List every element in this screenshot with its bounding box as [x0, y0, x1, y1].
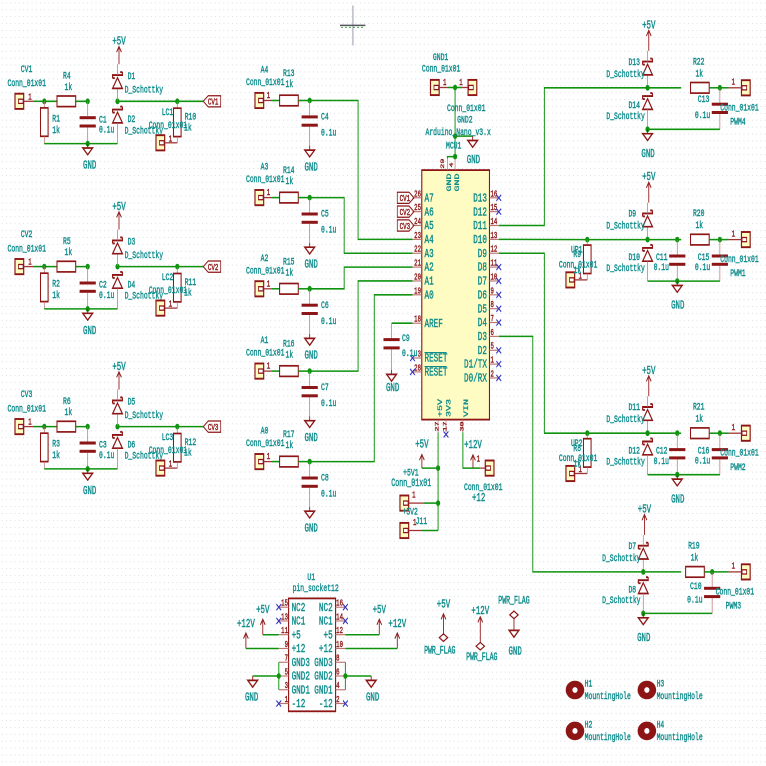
connector CV1 Conn_01x01 — [8, 63, 46, 109]
ground — [671, 281, 684, 312]
diode D1 D_Schottky — [113, 64, 163, 101]
svg-text:GND: GND — [366, 691, 379, 704]
svg-text:C10: C10 — [690, 580, 702, 592]
svg-text:GND: GND — [671, 299, 684, 312]
wire — [648, 280, 720, 282]
wire — [177, 266, 203, 268]
wire — [648, 474, 720, 476]
connector PWM4 Conn_01x01 — [720, 79, 758, 128]
pin 12 D9 — [478, 246, 499, 262]
wire — [44, 100, 87, 102]
svg-text:D7: D7 — [628, 540, 636, 552]
connector +5V2 Conn_01x01 — [400, 492, 424, 519]
svg-text:A2: A2 — [261, 252, 269, 264]
svg-text:0.1u: 0.1u — [695, 455, 710, 467]
svg-text:NC1: NC1 — [319, 615, 333, 629]
svg-text:CV1: CV1 — [208, 97, 219, 108]
svg-text:1: 1 — [169, 461, 173, 471]
pin 17 3V3 — [443, 399, 453, 437]
svg-text:GND: GND — [304, 349, 317, 362]
junction — [42, 424, 46, 430]
svg-text:9: 9 — [285, 641, 289, 651]
wire — [473, 467, 480, 469]
ground — [637, 613, 650, 644]
junction — [645, 126, 649, 132]
wire — [177, 426, 203, 428]
connector CV2 Conn_01x01 — [8, 229, 46, 275]
capacitor C3 0.1u — [80, 427, 115, 469]
svg-text:R19: R19 — [688, 540, 700, 552]
diode D3 D_Schottky — [113, 230, 163, 267]
svg-text:R20: R20 — [693, 208, 705, 220]
svg-text:11: 11 — [281, 627, 288, 637]
diode D11 D_Schottky — [606, 396, 652, 433]
wire — [437, 432, 439, 530]
junction — [175, 98, 179, 104]
svg-text:Conn_01x01: Conn_01x01 — [149, 285, 187, 297]
wire — [720, 87, 729, 89]
global label CV1 — [397, 192, 414, 205]
wire — [310, 295, 413, 462]
svg-text:0.1u: 0.1u — [654, 262, 669, 274]
svg-text:12: 12 — [490, 246, 497, 256]
svg-text:1: 1 — [28, 93, 32, 103]
junction — [710, 569, 714, 575]
svg-text:GND: GND — [671, 493, 684, 506]
svg-text:1: 1 — [732, 424, 736, 434]
svg-text:+5V: +5V — [112, 200, 125, 213]
mounting hole H1 — [566, 678, 631, 703]
svg-text:GND: GND — [83, 484, 96, 497]
junction — [675, 237, 679, 243]
power +5V — [642, 171, 655, 203]
svg-text:A4: A4 — [261, 64, 269, 76]
svg-text:5: 5 — [490, 343, 494, 353]
svg-text:MountingHole: MountingHole — [657, 691, 703, 703]
junction — [86, 141, 90, 147]
pin 13 NC1 — [276, 613, 305, 629]
junction — [86, 466, 90, 472]
svg-text:C5: C5 — [321, 208, 329, 220]
svg-text:H4: H4 — [657, 719, 665, 731]
svg-text:+12: +12 — [472, 491, 485, 504]
svg-text:Conn_01x01: Conn_01x01 — [720, 102, 758, 114]
svg-text:A1: A1 — [424, 275, 433, 289]
pin 2 D0/RX — [464, 370, 501, 386]
svg-text:D_Schottky: D_Schottky — [606, 456, 644, 468]
capacitor C9 0.1u — [383, 323, 417, 370]
svg-text:GND2: GND2 — [457, 114, 472, 126]
svg-text:+12V: +12V — [464, 438, 482, 451]
wire — [643, 571, 681, 573]
pin 6 GND2 — [314, 668, 345, 684]
connector PWM1 Conn_01x01 — [720, 230, 758, 279]
pin 18 AREF — [412, 316, 442, 332]
connector A2 Conn_01x01 — [246, 252, 284, 296]
svg-text:1k: 1k — [64, 407, 72, 419]
svg-text:NC1: NC1 — [292, 615, 306, 629]
svg-text:1k: 1k — [695, 413, 703, 425]
global label CV3 — [397, 220, 414, 233]
svg-text:C9: C9 — [402, 333, 410, 345]
svg-text:CV3: CV3 — [21, 389, 33, 401]
svg-text:1k: 1k — [573, 265, 581, 277]
svg-text:Conn_01x01: Conn_01x01 — [246, 347, 284, 359]
junction — [308, 195, 312, 201]
pin 8 D5 — [478, 301, 501, 317]
wire — [392, 322, 413, 324]
svg-text:Conn_01x01: Conn_01x01 — [422, 63, 460, 75]
pin 3 RESET — [410, 350, 447, 366]
pin 5 GND2 — [279, 668, 310, 684]
svg-text:+5V: +5V — [112, 35, 125, 48]
svg-text:GND: GND — [637, 631, 650, 644]
wire — [677, 432, 681, 434]
resistor R22 1k — [691, 56, 710, 93]
junction — [436, 465, 440, 471]
wire — [709, 432, 720, 434]
svg-text:D_Schottky: D_Schottky — [125, 249, 163, 261]
svg-text:R2: R2 — [52, 278, 60, 290]
svg-text:1: 1 — [732, 79, 736, 89]
svg-text:H3: H3 — [657, 678, 665, 690]
junction — [86, 306, 90, 312]
junction — [718, 237, 722, 243]
svg-text:GND2: GND2 — [292, 670, 310, 684]
wire — [310, 267, 413, 289]
svg-text:H2: H2 — [585, 719, 593, 731]
svg-text:A0: A0 — [261, 425, 269, 437]
capacitor C4 0.1u — [302, 101, 337, 146]
junction — [675, 430, 679, 436]
wire — [463, 432, 473, 468]
junction — [86, 424, 90, 430]
capacitor C7 0.1u — [302, 371, 337, 416]
svg-text:14: 14 — [336, 613, 343, 623]
svg-text:C13: C13 — [698, 94, 710, 106]
svg-text:GND: GND — [304, 161, 317, 174]
svg-text:A2: A2 — [424, 261, 433, 275]
wire — [648, 239, 678, 241]
svg-text:1k: 1k — [64, 247, 72, 259]
power +12V — [237, 617, 255, 648]
svg-text:Conn_01x01: Conn_01x01 — [391, 477, 431, 489]
svg-text:6: 6 — [336, 668, 340, 678]
svg-text:3V3: 3V3 — [446, 399, 453, 417]
svg-text:GND: GND — [508, 645, 521, 658]
svg-text:1: 1 — [169, 135, 173, 145]
svg-text:PWR_FLAG: PWR_FLAG — [498, 595, 529, 607]
svg-text:3: 3 — [418, 350, 422, 360]
junction — [453, 85, 457, 91]
svg-text:7: 7 — [285, 655, 288, 665]
svg-text:Conn_01x01: Conn_01x01 — [8, 403, 46, 415]
junction — [308, 98, 312, 104]
svg-text:4: 4 — [336, 682, 340, 692]
svg-text:12: 12 — [336, 627, 343, 637]
power +5V — [415, 438, 428, 468]
svg-text:GND: GND — [83, 159, 96, 172]
svg-text:NC2: NC2 — [292, 601, 306, 615]
junction — [343, 673, 347, 679]
svg-text:Conn_01x01: Conn_01x01 — [246, 174, 284, 186]
svg-text:0.1u: 0.1u — [695, 110, 710, 122]
resistor R11 1k — [173, 267, 196, 309]
capacitor C11 0.1u — [654, 240, 686, 282]
diode D7 D_Schottky — [602, 535, 648, 572]
power +12V — [388, 617, 406, 648]
capacitor C6 0.1u — [302, 289, 337, 334]
svg-text:H1: H1 — [585, 678, 593, 690]
svg-text:+5V: +5V — [642, 171, 655, 184]
svg-text:D7: D7 — [478, 275, 487, 289]
svg-text:A0: A0 — [424, 289, 433, 303]
power +5V — [642, 19, 655, 51]
svg-text:23: 23 — [414, 232, 421, 242]
wire — [720, 239, 729, 241]
pin 6 D3 — [478, 329, 499, 345]
diode D9 D_Schottky — [606, 203, 652, 240]
svg-text:MCU1: MCU1 — [446, 140, 461, 152]
svg-text:8: 8 — [490, 301, 494, 311]
svg-text:Conn_01x01: Conn_01x01 — [246, 77, 284, 89]
wire — [643, 612, 712, 614]
pin 20 A1 — [412, 273, 433, 289]
power +5V — [112, 360, 125, 389]
svg-text:9: 9 — [490, 287, 494, 297]
wire — [33, 100, 44, 102]
pin 11 +5 — [279, 627, 301, 643]
power +12V PWR_FLAG — [466, 604, 497, 664]
svg-text:0.1u: 0.1u — [321, 127, 336, 139]
pin 15 NC2 — [276, 600, 305, 616]
svg-text:R4: R4 — [63, 70, 71, 82]
ground — [245, 676, 258, 704]
pin 7 GND3 — [279, 655, 310, 671]
svg-text:0.1u: 0.1u — [321, 224, 336, 236]
svg-text:1: 1 — [732, 563, 736, 573]
svg-text:1: 1 — [267, 92, 271, 102]
svg-text:PWR_FLAG: PWR_FLAG — [424, 645, 455, 657]
capacitor C5 0.1u — [302, 198, 337, 243]
svg-text:+12V: +12V — [471, 604, 489, 617]
svg-text:AREF: AREF — [424, 317, 442, 331]
wire — [33, 266, 44, 268]
svg-text:6: 6 — [490, 329, 494, 339]
svg-text:26: 26 — [414, 190, 421, 200]
wire — [587, 432, 647, 434]
svg-text:+12V: +12V — [388, 617, 406, 630]
ground — [304, 334, 317, 362]
diode D12 D_Schottky — [606, 439, 652, 475]
connector A1 Conn_01x01 — [246, 335, 284, 379]
svg-text:PWR_FLAG: PWR_FLAG — [466, 652, 497, 664]
svg-text:10: 10 — [336, 641, 343, 651]
svg-text:Conn_01x01: Conn_01x01 — [716, 586, 754, 598]
svg-text:0.1u: 0.1u — [99, 289, 114, 301]
svg-text:C4: C4 — [321, 111, 329, 123]
svg-text:NC2: NC2 — [319, 601, 333, 615]
ground — [83, 309, 97, 338]
wire — [454, 136, 456, 157]
wire — [709, 239, 720, 241]
svg-text:Conn_01x01: Conn_01x01 — [720, 447, 758, 459]
ground — [386, 370, 399, 395]
power +5V — [373, 604, 386, 635]
svg-text:7: 7 — [490, 315, 493, 325]
svg-text:30: 30 — [460, 421, 466, 431]
resistor R19 1k — [686, 540, 705, 577]
svg-text:+5V: +5V — [437, 399, 444, 417]
wire — [454, 157, 456, 159]
connector UP1 Conn_01x01 — [559, 244, 597, 287]
global label CV2 — [203, 261, 220, 274]
diode D10 D_Schottky — [606, 245, 652, 281]
pin 16 D13 — [473, 190, 501, 206]
pin 15 D12 — [473, 204, 501, 220]
junction — [453, 133, 457, 139]
svg-text:CV2: CV2 — [400, 208, 411, 219]
svg-text:D12: D12 — [473, 206, 487, 220]
svg-text:CV3: CV3 — [400, 222, 411, 233]
svg-text:PWM1: PWM1 — [730, 268, 745, 280]
wire — [448, 87, 462, 89]
pin 3 GND1 — [279, 682, 310, 698]
svg-text:1k: 1k — [285, 267, 293, 279]
svg-text:Conn_01x01: Conn_01x01 — [8, 243, 46, 255]
svg-text:GND: GND — [386, 381, 399, 394]
svg-text:0.1u: 0.1u — [99, 124, 114, 136]
power +5V — [112, 35, 125, 64]
svg-text:-12: -12 — [319, 698, 333, 712]
svg-text:D_Schottky: D_Schottky — [606, 68, 644, 80]
wire — [424, 502, 438, 504]
svg-text:13: 13 — [281, 613, 288, 623]
svg-text:1: 1 — [477, 455, 481, 465]
pin 25 A6 — [412, 204, 433, 220]
capacitor C12 0.1u — [654, 433, 686, 475]
svg-text:GND2: GND2 — [314, 670, 332, 684]
svg-text:1k: 1k — [573, 458, 581, 470]
svg-text:D0/RX: D0/RX — [464, 372, 487, 386]
connector PWM2 Conn_01x01 — [720, 424, 758, 473]
resistor R5 1k — [57, 235, 76, 272]
svg-text:1k: 1k — [695, 68, 703, 80]
pin 24 A5 — [412, 218, 433, 234]
svg-text:RESET: RESET — [424, 366, 447, 380]
wire — [253, 675, 279, 677]
diode D2 D_Schottky — [113, 107, 163, 144]
svg-text:D13: D13 — [628, 56, 640, 68]
svg-text:CV1: CV1 — [21, 63, 33, 75]
wire — [499, 253, 587, 433]
wire — [422, 467, 438, 469]
wire — [44, 468, 117, 470]
svg-text:GND: GND — [641, 147, 654, 160]
svg-text:+5V: +5V — [638, 503, 651, 516]
svg-text:+5V: +5V — [415, 438, 428, 451]
wire — [344, 662, 346, 690]
svg-text:1: 1 — [490, 357, 494, 367]
svg-text:D10: D10 — [473, 233, 487, 247]
wire — [454, 88, 456, 137]
junction — [585, 237, 589, 243]
svg-text:PWM4: PWM4 — [730, 116, 745, 128]
pin 26 A7 — [412, 190, 433, 206]
svg-text:pin_socket12: pin_socket12 — [293, 582, 339, 594]
connector CV3 Conn_01x01 — [8, 389, 46, 435]
junction — [115, 98, 119, 104]
wire — [648, 128, 720, 130]
svg-text:1: 1 — [443, 79, 447, 89]
wire — [720, 432, 729, 434]
svg-text:D9: D9 — [628, 208, 636, 220]
power +5V — [112, 200, 125, 229]
mounting hole H3 — [638, 678, 703, 703]
pin 23 A4 — [412, 232, 433, 248]
ground — [304, 507, 317, 535]
svg-text:1k: 1k — [64, 81, 72, 93]
svg-text:1: 1 — [267, 363, 271, 373]
svg-text:16: 16 — [336, 600, 343, 610]
diode D13 D_Schottky — [606, 51, 652, 88]
power +5V PWR_FLAG — [424, 598, 455, 657]
svg-text:C8: C8 — [321, 472, 329, 484]
ground — [671, 475, 684, 506]
junction — [115, 424, 119, 430]
svg-text:D4: D4 — [478, 317, 487, 331]
pin 29 GND — [440, 159, 453, 192]
svg-text:A1: A1 — [261, 335, 269, 347]
wire — [704, 571, 712, 573]
junction — [175, 264, 179, 270]
connector J11 Conn_01x01 — [400, 516, 427, 538]
ground — [83, 469, 97, 498]
svg-text:R5: R5 — [63, 235, 71, 247]
svg-text:A4: A4 — [424, 233, 433, 247]
mounting hole H2 — [566, 719, 631, 744]
wire — [44, 426, 87, 428]
pin 27 +5V — [435, 399, 444, 432]
wire — [272, 288, 280, 290]
junction — [718, 430, 722, 436]
svg-text:Conn_01x01: Conn_01x01 — [720, 254, 758, 266]
junction — [436, 500, 440, 506]
svg-text:1: 1 — [28, 259, 32, 269]
svg-text:Conn_01x01: Conn_01x01 — [149, 119, 187, 131]
pin 10 +12 — [319, 641, 345, 657]
svg-text:D11: D11 — [628, 402, 640, 414]
svg-text:+12: +12 — [292, 643, 306, 657]
capacitor C13 0.1u — [695, 88, 728, 130]
diode D6 D_Schottky — [113, 432, 163, 469]
svg-text:LC2: LC2 — [162, 272, 174, 284]
resistor R6 1k — [57, 395, 76, 432]
wire — [117, 100, 177, 102]
svg-text:D6: D6 — [478, 289, 487, 303]
pin 11 D8 — [478, 260, 501, 276]
svg-text:GND: GND — [454, 174, 461, 192]
junction — [641, 611, 645, 617]
svg-text:+5V: +5V — [256, 604, 269, 617]
svg-text:D_Schottky: D_Schottky — [606, 414, 644, 426]
svg-text:1: 1 — [285, 696, 289, 706]
pin 5 D2 — [478, 343, 501, 359]
pin 1 -12 — [276, 696, 305, 712]
svg-text:1k: 1k — [285, 176, 293, 188]
svg-text:D_Schottky: D_Schottky — [606, 111, 644, 123]
capacitor C2 0.1u — [80, 267, 115, 309]
